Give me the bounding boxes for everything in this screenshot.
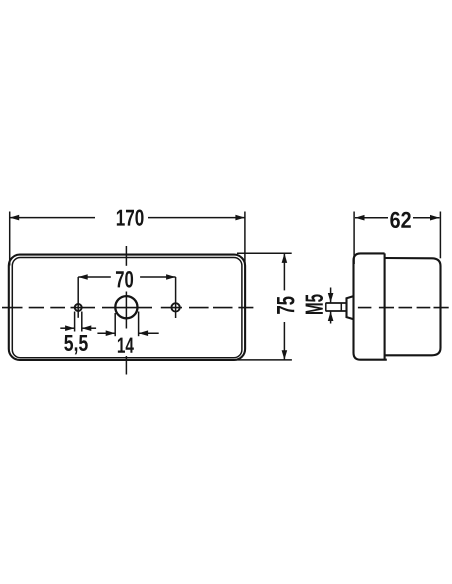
dimension 170: right arrow: [235, 215, 245, 221]
dimension 14: right edge extension line: [138, 312, 140, 337]
dimension 170: left arrow: [10, 215, 20, 221]
left hole vertical centerline / 70-dim extension: [77, 277, 79, 318]
centerline (side view): [358, 307, 449, 309]
dimension 170: dimension line: [10, 217, 95, 219]
dimension 75: bottom extension line: [235, 359, 292, 361]
dimension 5,5: left arrow segment: [60, 327, 74, 329]
vertical centerline through central hole: [125, 292, 127, 329]
dimension 75: bottom arrow: [282, 350, 288, 360]
dimension M5: bottom arrow: [330, 312, 332, 324]
thread end tick: [340, 303, 342, 311]
horizontal centerline (front view): [2, 307, 253, 309]
dimension 14: value label: [118, 338, 134, 353]
dimension 5,5: right arrow segment: [82, 327, 96, 329]
vertical centerline tick crossing bottom edge: [125, 356, 127, 375]
stud end cap: [325, 303, 327, 311]
dimension 14: left arrow segment: [97, 332, 115, 334]
dimension 75: dimension line: [283, 254, 285, 291]
dimension 5,5: left edge extension line: [74, 312, 76, 332]
dimension 62: right extension line: [439, 212, 441, 259]
dimension 62: value label: [390, 212, 410, 228]
dimension 62: right arrow: [430, 215, 440, 221]
dimension 62: left extension line: [353, 212, 355, 265]
central hole dia 14: [115, 296, 137, 318]
dimension 14: left edge extension line: [114, 313, 116, 336]
dimension 75: top arrow: [282, 253, 288, 263]
lens inner contour (front view): [12, 258, 242, 358]
dimension 70: value label: [116, 271, 133, 288]
housing/lens parting line: [384, 253, 386, 359]
M5 stud shank top line: [326, 302, 347, 304]
dimension 70: right arrow: [166, 274, 176, 280]
mounting boss: [347, 296, 355, 319]
dimension 75: top extension line: [237, 252, 292, 254]
lamp body outer outline (front view): [9, 255, 245, 360]
dimension M5: value label (rotated): [306, 294, 323, 314]
dimension 170: left extension line: [9, 212, 11, 266]
dimension M5: top arrow: [330, 288, 332, 303]
dimension 62: dimension line: [355, 217, 388, 219]
right hole vertical centerline / 70-dim extension: [175, 277, 177, 318]
dimension 5,5: value label: [64, 335, 87, 354]
dimension 62: left arrow: [355, 215, 365, 221]
dimension 170: value label: [117, 210, 144, 226]
dimension 170: right extension line: [244, 212, 246, 264]
dimension 75: value label (rotated): [277, 297, 294, 314]
left mounting hole dia 5.5: [75, 304, 82, 311]
housing outline (side view): [354, 253, 387, 359]
right mounting hole: [171, 303, 179, 311]
dimension 70: left arrow: [78, 274, 88, 280]
dimension 70: dimension line: [78, 276, 111, 278]
dimension 5,5: right edge extension line: [81, 312, 83, 332]
M5 stud shank bottom line: [326, 310, 347, 312]
lens outline (side view): [385, 258, 441, 355]
vertical centerline tick crossing top edge: [125, 246, 127, 266]
dimension 14: right arrow segment: [139, 332, 159, 334]
